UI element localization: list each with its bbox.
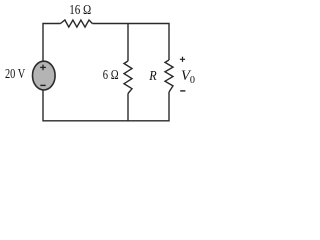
- resistor 16 ohm (top horizontal zigzag): [61, 20, 93, 27]
- polarity plus inside source: [40, 65, 46, 71]
- wire: top-left segment from source top to resistor R1: [43, 24, 61, 62]
- wire: top segment from R1 to right corner: [92, 24, 169, 61]
- resistor R (right vertical zigzag): [165, 60, 173, 92]
- svg-text:6 Ω: 6 Ω: [103, 67, 119, 82]
- svg-text:R: R: [148, 68, 156, 83]
- voltage source V1 (20 V) circle: [33, 61, 56, 90]
- wire: left bottom segment from source to bottom-left corner: [43, 90, 128, 121]
- polarity minus inside source: [40, 84, 45, 86]
- plus sign of V0: [180, 57, 185, 62]
- wire: middle branch bottom segment: [127, 94, 129, 121]
- resistor 6 ohm (middle vertical zigzag): [124, 61, 132, 94]
- minus sign of V0: [180, 90, 185, 92]
- node A: middle branch top wire: [127, 24, 129, 62]
- svg-text:20 V: 20 V: [5, 66, 25, 81]
- svg-text:16 Ω: 16 Ω: [69, 2, 91, 17]
- wire: bottom segment middle to right corner: [128, 92, 169, 121]
